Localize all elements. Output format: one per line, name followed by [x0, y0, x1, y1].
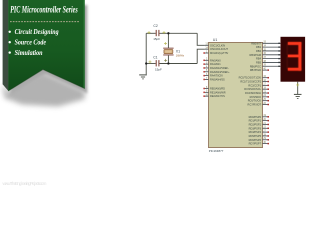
ribbon notch shadow — [4, 72, 85, 107]
segment b (lit) — [299, 42, 301, 55]
svg-text:RE0/AN5/RD: RE0/AN5/RD — [210, 87, 225, 91]
bullet item: Simulation — [9, 51, 11, 53]
segment g (lit) — [288, 55, 301, 57]
svg-text:OSC1/CLKIN: OSC1/CLKIN — [210, 43, 225, 47]
bullet item: Circuit Designing — [9, 31, 11, 33]
wire: left ground rail — [145, 33, 147, 74]
svg-text:OSC2/CLKOUT: OSC2/CLKOUT — [210, 47, 228, 51]
segment a (lit) — [288, 42, 301, 44]
svg-text:RB5: RB5 — [256, 60, 262, 64]
svg-text:RD6/PSP6: RD6/PSP6 — [249, 138, 262, 142]
svg-text:RB1: RB1 — [256, 45, 262, 49]
svg-text:RB4: RB4 — [256, 57, 262, 61]
svg-text:RC3/SCK/SCL: RC3/SCK/SCL — [244, 87, 261, 91]
svg-text:RB2: RB2 — [256, 49, 262, 53]
lit segments glow — [288, 42, 302, 71]
svg-text:RA3/AN3/VREF+: RA3/AN3/VREF+ — [210, 70, 230, 74]
wire: bottom rail right of C1 — [159, 63, 197, 65]
svg-text:Simulation: Simulation — [15, 49, 43, 57]
svg-text:RD0/PSP0: RD0/PSP0 — [249, 115, 262, 119]
wire: bottom rail left of C1 — [146, 63, 156, 65]
capacitor C2 — [148, 24, 166, 41]
svg-text:www.TheEngineeringProjects.com: www.TheEngineeringProjects.com — [3, 181, 47, 186]
svg-text:RD7/PSP7: RD7/PSP7 — [249, 142, 262, 146]
svg-text:RD4/PSP4: RD4/PSP4 — [249, 130, 262, 134]
svg-text:RA5/AN4/SS: RA5/AN4/SS — [210, 77, 225, 81]
svg-text:RC6/TX/CK: RC6/TX/CK — [248, 99, 262, 103]
svg-text:RD3/PSP3: RD3/PSP3 — [249, 126, 262, 130]
crystal origin marker — [164, 42, 167, 45]
crystal X1 — [163, 48, 185, 62]
junction node: ground rail / bottom rail — [145, 62, 147, 64]
IC right pins — [239, 41, 281, 145]
svg-text:RD5/PSP5: RD5/PSP5 — [249, 134, 262, 138]
svg-text:RC4/SDI/SDA: RC4/SDI/SDA — [245, 91, 261, 95]
ribbon shadow — [11, 5, 88, 96]
svg-text:RD1/PSP1: RD1/PSP1 — [249, 119, 262, 123]
svg-text:RB7/PGD: RB7/PGD — [250, 68, 261, 72]
display common cathode lead — [297, 82, 299, 95]
svg-text:RC7/RX/DT: RC7/RX/DT — [248, 103, 262, 107]
svg-text:Source Code: Source Code — [15, 39, 46, 47]
capacitor C1 — [149, 56, 163, 72]
svg-text:RC2/CCP1: RC2/CCP1 — [248, 83, 261, 87]
svg-text:MCLR/Vpp/THV: MCLR/Vpp/THV — [210, 51, 229, 55]
IC U1 PIC16F877 body — [209, 42, 263, 147]
ground (display) — [294, 94, 302, 98]
wire: crystal bottom lead — [167, 55, 169, 63]
svg-text:RE1/AN6/WR: RE1/AN6/WR — [210, 90, 226, 94]
svg-text:RA0/AN0: RA0/AN0 — [210, 58, 221, 62]
segment e (off) — [286, 57, 288, 69]
svg-text:U1: U1 — [213, 38, 217, 42]
svg-text:16MHz: 16MHz — [176, 53, 185, 57]
wire: top rail right of C2 — [159, 32, 197, 34]
segment f (off) — [286, 44, 288, 55]
junction node: crystal bottom / bottom rail — [167, 62, 169, 64]
svg-text:RC0/T1OSO/T1CKI: RC0/T1OSO/T1CKI — [239, 76, 262, 80]
svg-text:C2: C2 — [153, 24, 157, 28]
svg-text:15pF: 15pF — [155, 68, 162, 72]
ribbon banner — [8, 0, 85, 91]
junction node: crystal top / top rail — [167, 32, 169, 34]
ribbon notch fold shading — [8, 69, 85, 91]
svg-text:PIC16F877: PIC16F877 — [209, 149, 224, 153]
bullet item: Source Code — [9, 41, 11, 43]
ground (oscillator) — [139, 75, 147, 79]
wire: OSC1 drop — [197, 33, 205, 45]
svg-text:RE2/AN7/CS: RE2/AN7/CS — [210, 94, 225, 98]
segment d (lit) — [288, 68, 301, 70]
ribbon left fold — [3, 0, 9, 91]
wire: OSC2 rise — [197, 49, 205, 63]
svg-text:C1: C1 — [153, 56, 157, 60]
svg-text:RB3/PGM: RB3/PGM — [250, 53, 261, 57]
svg-text:RD2/PSP2: RD2/PSP2 — [249, 122, 262, 126]
svg-text:RA1/AN1: RA1/AN1 — [210, 62, 221, 66]
wire: crystal top lead — [167, 33, 169, 48]
svg-text:RC1/T1OSI/CCP2: RC1/T1OSI/CCP2 — [240, 80, 261, 84]
svg-text:RA2/AN2/VREF-: RA2/AN2/VREF- — [210, 66, 229, 70]
segment c (lit) — [299, 57, 301, 71]
svg-text:X1: X1 — [176, 50, 180, 54]
svg-text:PIC Microcontroller Series: PIC Microcontroller Series — [10, 5, 78, 15]
svg-text:Circuit Designing: Circuit Designing — [15, 28, 59, 36]
ribbon right bevel — [83, 0, 85, 88]
banner divider line — [10, 21, 80, 23]
svg-text:RB6/PGC: RB6/PGC — [250, 64, 261, 68]
svg-text:RC5/SDO: RC5/SDO — [250, 95, 261, 99]
svg-text:15pF: 15pF — [153, 37, 160, 41]
ribbon under shadow — [2, 84, 9, 99]
svg-text:RB0/INT: RB0/INT — [251, 41, 261, 45]
wire: top rail left of C2 — [146, 32, 156, 34]
7-segment display body — [281, 37, 306, 82]
IC left pins — [203, 43, 230, 98]
svg-text:RA4/T0CKI: RA4/T0CKI — [210, 74, 223, 78]
